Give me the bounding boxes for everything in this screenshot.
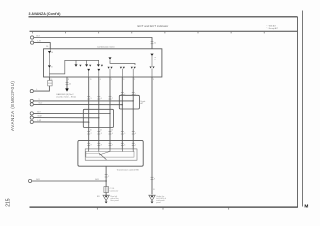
lamp arrow col88 [85,64,88,66]
connector circle G [30,116,33,119]
switch contacts [89,150,134,152]
svg-text:2: 2 [91,133,92,135]
park/neutral switch outer box [78,140,143,166]
svg-text:10: 10 [90,130,92,132]
svg-text:* : Except A/T: * : Except A/T [267,27,279,30]
switch arm (diagonal) [99,153,107,160]
vertical wire V1 [88,77,90,150]
svg-text:8: 8 [101,145,102,147]
vertical wire V5 [132,77,134,150]
lamp arrow col99 row2 [97,69,100,71]
svg-text:Transmission control SW: Transmission control SW [117,168,139,171]
diode pair col110 [108,67,110,69]
svg-text:2: 2 [108,176,109,178]
column x=152 arrow [150,54,153,56]
wire col67 with connector ticks [66,77,68,89]
junction dot [133,100,134,101]
diode pair col122 [120,67,122,69]
ground 2 labels [156,195,166,204]
connector circle E [30,103,33,106]
svg-text:floor panel: floor panel [110,200,119,202]
svg-text:7: 7 [112,98,113,100]
svg-text:16: 16 [51,52,53,54]
title underline / frame top [29,16,298,18]
diode box (mid) [119,95,139,109]
svg-text:6: 6 [135,133,136,135]
svg-text:4: 4 [100,79,101,81]
junction dot [105,180,106,181]
meter pin labels bottom [50,79,154,81]
connector circle B [30,41,33,44]
svg-text:3: 3 [101,133,102,135]
svg-text:14: 14 [100,130,102,132]
wire H [34,121,89,123]
meter internal bus right [110,60,135,65]
svg-text:9: 9 [91,145,92,147]
wire from A to meter [34,38,152,49]
ground 1 [105,193,107,196]
svg-text:3: 3 [123,79,124,81]
ticks on V1..V3 upper [87,93,134,99]
arrow into meter (col 49) [48,51,51,53]
connector tick pair on wire A drop [151,42,154,44]
svg-text:5: 5 [124,133,125,135]
connector circle C [30,90,33,93]
svg-text:5: 5 [111,79,112,81]
wire G [34,117,99,119]
connector circle H [30,120,33,123]
diode pair col133 [131,67,133,69]
ticks above lower box [87,132,134,134]
indicator box (box2) [83,109,113,127]
vertical wire V6 (to ground) [151,77,153,194]
header zone ticks [33,31,265,33]
connector circle F [30,112,33,115]
lamp arrow col76 [75,64,78,66]
diode pair col152 [150,67,152,69]
svg-text:9: 9 [153,79,154,81]
mark col101.9 [101,65,103,67]
frame right edge [297,17,299,208]
svg-text:ECT and ECT indicator: ECT and ECT indicator [138,24,169,28]
box2 pin labels [90,130,113,132]
meter internal jog wires [49,60,99,74]
svg-text:5: 5 [91,98,92,100]
svg-text:8: 8 [68,79,69,81]
frame bottom rule [30,206,298,208]
svg-text:22: 22 [69,83,71,85]
junction dot [122,104,123,105]
page trim edge [302,11,304,207]
noise filter box [104,187,109,193]
svg-text:2: 2 [135,145,136,147]
switch inner ledge [86,153,99,155]
svg-text:16: 16 [46,46,49,48]
svg-text:6: 6 [124,145,125,147]
header bottom rule [30,30,298,32]
ticks on V6 lower [151,177,154,179]
svg-text:B: B [51,67,53,69]
connector circle A [30,36,33,39]
wire J [32,180,106,182]
svg-text:panel: panel [156,202,161,204]
bus arrow terminal col67 [65,88,69,91]
inline connector box on col49 [48,80,52,86]
svg-text:8: 8 [124,94,125,96]
vertical wire V4 [121,77,123,150]
svg-text:11: 11 [90,79,92,81]
ticks on output wire [105,175,108,177]
svg-text:BR: BR [97,196,100,198]
tick labels [91,94,137,100]
svg-text:v: v [155,59,156,61]
arrow col110 [109,57,112,59]
connector circle D [30,99,33,102]
svg-text:21: 21 [154,43,157,45]
mark col81 [79,65,81,67]
svg-text:9: 9 [154,178,155,180]
mark col93 [89,65,91,67]
switch inner box [86,151,134,157]
svg-text:Connector: Connector [110,190,119,193]
wire from B to meter [34,43,50,49]
combination meter box [44,49,162,77]
bottom zone ticks [97,208,228,210]
wire D [34,100,134,102]
switch middle box [85,149,137,160]
svg-text:M: M [304,203,308,209]
wire F [34,112,110,114]
vertical wire V3 [109,77,111,150]
switch arm 2 [99,151,110,155]
svg-text:2: 2 [134,79,135,81]
connector circle J (bottom left) [29,179,32,182]
vertical wire V2 [98,77,100,150]
svg-text:3 AVANZA (Cont’d): 3 AVANZA (Cont’d) [29,12,62,16]
wire from C up into meter [34,86,50,91]
lamp arrow col99 [97,64,100,66]
meter column wires row2 [89,56,152,77]
meter internal column x=49.4 [49,49,51,51]
svg-text:7: 7 [112,145,113,147]
svg-text:Combination meter: Combination meter [97,45,115,48]
svg-text:6: 6 [101,98,102,100]
svg-text:B: B [153,189,155,191]
ticks inside lower outer box [87,143,134,145]
svg-text:(Comb. meter – ECU): (Comb. meter – ECU) [57,95,77,98]
svg-text:AVANZA (EM02F0U): AVANZA (EM02F0U) [10,81,15,131]
svg-text:13: 13 [111,130,113,132]
svg-text:9: 9 [135,94,136,96]
lamp arrow row2 col49 [48,65,51,67]
ground 2 [149,195,155,200]
svg-text:215: 215 [6,198,12,207]
meter internal drops [76,60,98,64]
wire E [34,103,123,105]
lamp arrow col88 row2 [87,69,90,71]
svg-text:4: 4 [112,133,113,135]
switch output wire [105,166,107,186]
